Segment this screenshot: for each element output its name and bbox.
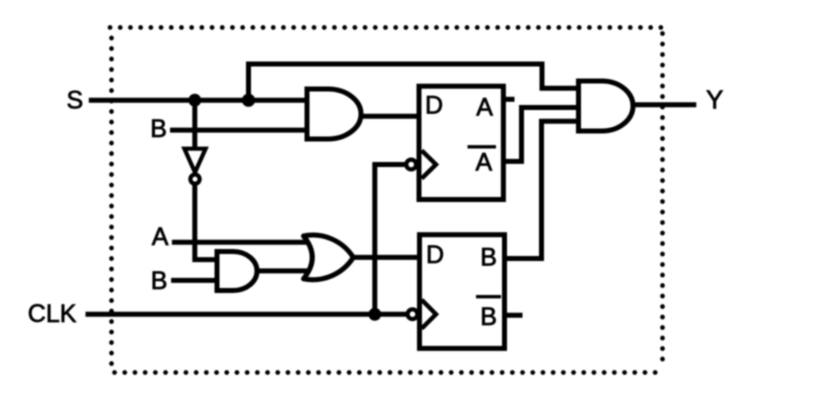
wire FF2 Q (B) to output AND [505, 121, 581, 258]
svg-text:B: B [151, 267, 168, 295]
svg-text:A: A [476, 94, 493, 122]
FF1 clock bubble [406, 160, 416, 170]
junction dot on S at inverter branch [188, 94, 201, 107]
wire FF2 Qbar stub (Bbar, unused) [505, 313, 523, 318]
OR gate [304, 235, 354, 280]
svg-text:D: D [426, 241, 444, 269]
FF1 clock triangle [422, 151, 436, 179]
FF2 clock triangle [422, 300, 436, 329]
AND gate lower small [217, 252, 257, 291]
D flip-flop U1 (top) box [419, 86, 503, 199]
AND gate output (3-input) [579, 81, 633, 131]
wire B upper input [170, 128, 309, 133]
inverter (triangle + bubble) [184, 149, 205, 173]
svg-text:S: S [67, 86, 84, 114]
AND gate upper (S·B) [307, 89, 361, 139]
svg-text:B: B [480, 244, 497, 272]
svg-text:Y: Y [706, 85, 723, 115]
wire B lower input [171, 278, 219, 283]
svg-text:D: D [425, 92, 443, 120]
wire Y output [633, 102, 696, 107]
svg-text:B: B [150, 115, 167, 143]
FF2 label Bbar overbar [476, 295, 501, 298]
FF1 label Abar overbar [468, 145, 497, 148]
dotted boundary box [110, 28, 663, 373]
svg-text:B: B [480, 303, 497, 331]
wire A input [172, 240, 308, 245]
wire FF1 Q stub (A output, unused) [504, 97, 515, 102]
svg-text:A: A [476, 148, 493, 176]
wire OR output to FF2 D [350, 255, 420, 260]
wire S input [89, 98, 309, 103]
wire AND1 output to FF1 D [359, 114, 420, 119]
D flip-flop U2 (bottom) box [420, 235, 505, 349]
svg-text:CLK: CLK [28, 300, 77, 328]
wire inverter output to lower AND [195, 185, 219, 260]
wire FF1 Qbar (Abar) to output AND [504, 108, 581, 162]
wire CLK branch to FF1 clock [375, 165, 406, 315]
svg-text:A: A [152, 223, 169, 251]
junction dot on S at top branch [242, 94, 255, 107]
wire inverter input branch [192, 100, 197, 150]
FF2 clock bubble [408, 309, 418, 319]
wire CLK input [86, 312, 407, 317]
wire S branch to top [249, 64, 581, 100]
junction dot on CLK line [368, 308, 381, 321]
wire AND2 output to OR [256, 268, 308, 273]
